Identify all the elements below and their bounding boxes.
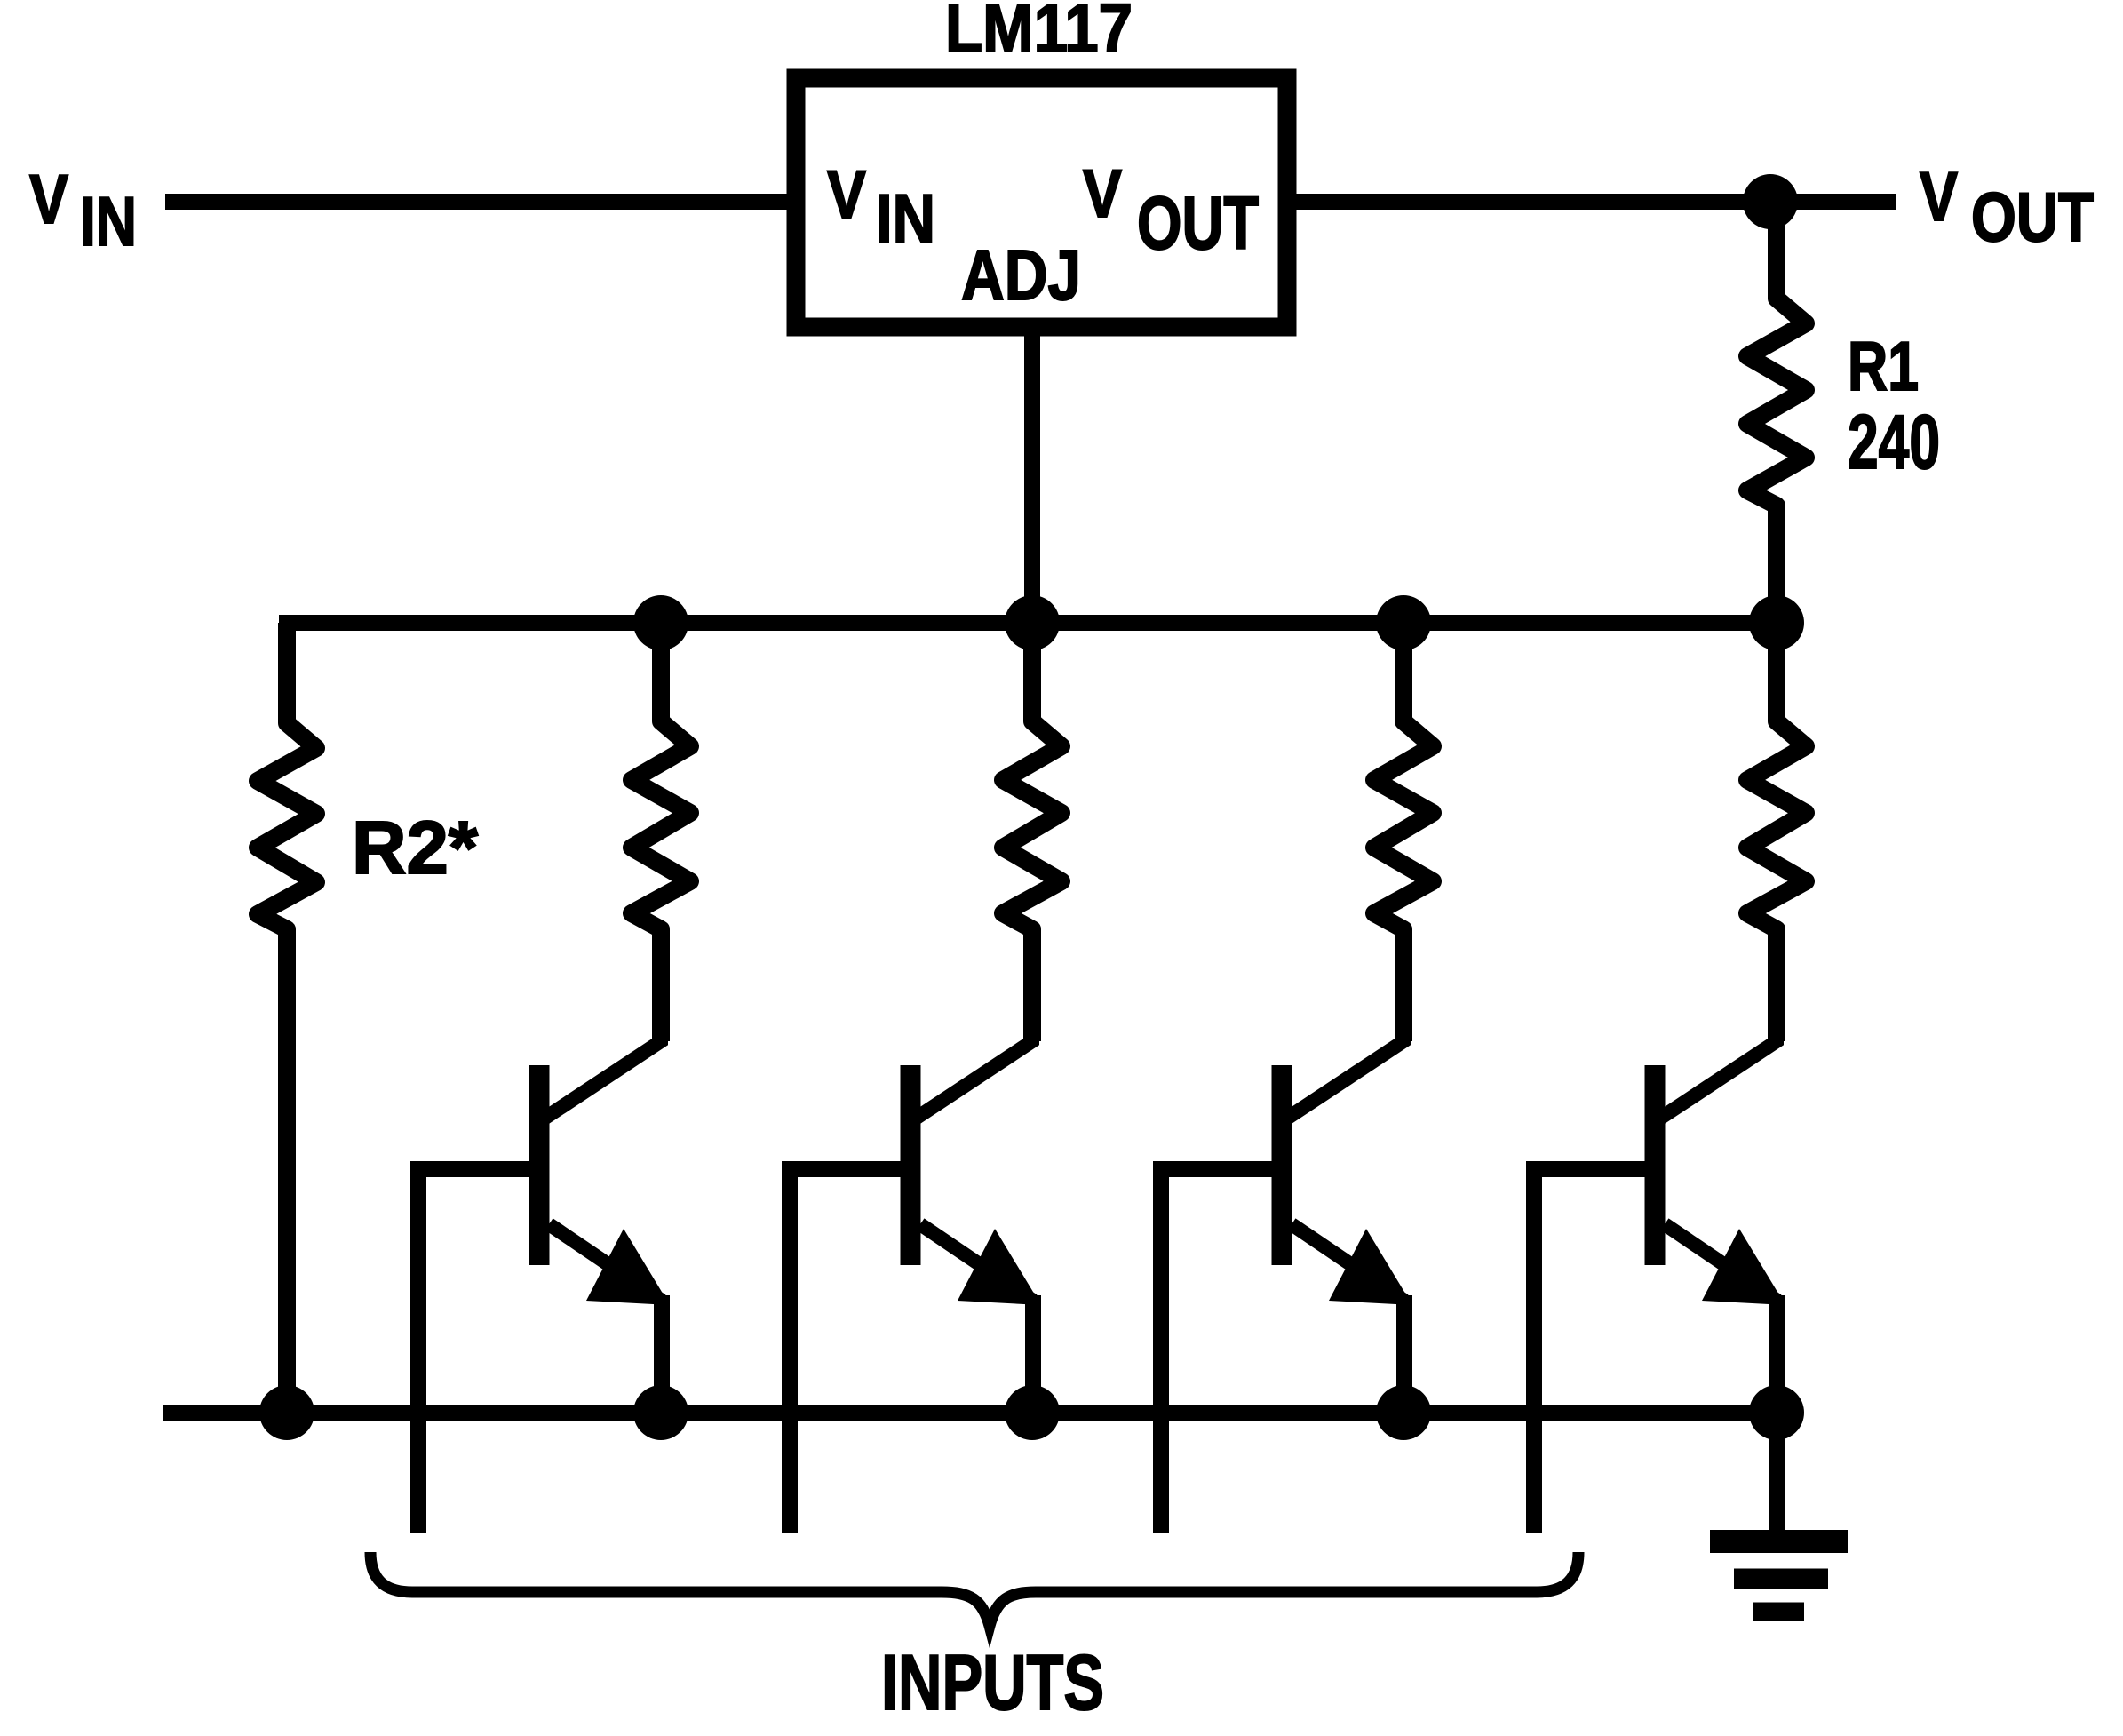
node VOUT junction (1743, 174, 1798, 229)
svg-text:V: V (29, 160, 68, 238)
resistor R5 (collector pull-up of Q3) (1374, 623, 1433, 1041)
node emitter junction 1 on ground bus (633, 1385, 688, 1440)
wire base input stub of Q3 (1161, 1169, 1288, 1533)
brace INPUTS (under input stubs) (370, 1552, 1578, 1626)
transistor Q2 (NPN) (910, 1034, 1041, 1413)
pin label VOUT inside box (1083, 156, 1259, 265)
svg-text:V: V (1920, 157, 1958, 235)
wire base input stub of Q2 (790, 1169, 917, 1533)
label VOUT (output net, right) (1920, 157, 2094, 256)
wire ADJ bus (horizontal) (279, 615, 1777, 631)
wire VIN to LM117 box (165, 194, 796, 210)
node ADJ bus junction 3 (1376, 595, 1431, 650)
transistor Q4 (NPN) (1655, 1034, 1785, 1413)
svg-text:V: V (1083, 156, 1122, 232)
svg-text:INPUTS: INPUTS (881, 1638, 1104, 1726)
transistor Q3 (NPN) (1282, 1034, 1412, 1413)
resistor R6 (collector pull-up of Q4) (1747, 623, 1806, 1041)
resistor R4 (collector pull-up of Q2) (1003, 623, 1061, 1041)
node R2* junction on ground bus (259, 1385, 314, 1440)
wire ground stub (1769, 1413, 1785, 1541)
ground symbol (1710, 1541, 1848, 1612)
wire base input stub of Q4 (1534, 1169, 1661, 1533)
svg-text:ADJ: ADJ (961, 235, 1081, 315)
node emitter junction 4 on ground bus (1749, 1385, 1804, 1440)
node emitter junction 2 on ground bus (1005, 1385, 1060, 1440)
svg-text:R2*: R2* (352, 806, 478, 889)
wire emitter/ground bus (horizontal) (163, 1405, 1777, 1421)
transistor Q1 (NPN) (539, 1034, 670, 1413)
node ADJ bus junction 1 (633, 595, 688, 650)
svg-text:240: 240 (1848, 400, 1940, 485)
node ADJ bus junction 2 (1005, 595, 1060, 650)
label VIN (input net, left) (29, 160, 137, 260)
label R1 value 240 (1848, 327, 1940, 485)
svg-text:V: V (827, 157, 866, 233)
wire ADJ pin down to bus (1024, 327, 1040, 623)
wire base input stub of Q1 (418, 1169, 545, 1533)
node emitter junction 3 on ground bus (1376, 1385, 1431, 1440)
svg-text:R1: R1 (1848, 327, 1919, 405)
svg-text:LM117: LM117 (945, 0, 1133, 67)
svg-text:OUT: OUT (1971, 178, 2094, 256)
resistor R3 (collector pull-up of Q1) (632, 623, 690, 1041)
resistor R1 (240 ohm, VOUT to ADJ bus) (1747, 202, 1806, 623)
svg-text:OUT: OUT (1137, 181, 1259, 265)
svg-text:IN: IN (876, 179, 935, 258)
node ADJ bus junction 4 (1749, 595, 1804, 650)
svg-text:IN: IN (80, 182, 137, 260)
resistor R2* (ADJ bus left leg to ground bus) (258, 623, 316, 1413)
wire LM117 VOUT pin to output node (1287, 194, 1896, 210)
op-amp U1 LM117 regulator box (796, 78, 1287, 327)
pin label VIN inside box (827, 157, 935, 258)
